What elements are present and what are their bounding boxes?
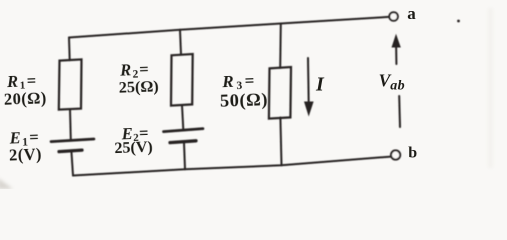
svg-text:25(V): 25(V) — [114, 139, 153, 157]
svg-text:2(V): 2(V) — [9, 144, 42, 164]
paper smudge bottom-left — [0, 178, 13, 189]
wire R2 to E2 — [182, 105, 183, 130]
wire R2 branch top — [180, 30, 181, 55]
svg-text:a: a — [407, 4, 416, 23]
label E2 value — [114, 123, 153, 157]
voltage arrow Vab head — [392, 34, 401, 48]
wire E2 to bottom rail — [184, 142, 185, 169]
wire R3 to bottom rail — [280, 118, 281, 166]
wire bottom rail — [73, 157, 391, 176]
resistor R2 — [171, 54, 193, 106]
resistor R3 — [269, 67, 291, 119]
label E1 value — [8, 127, 42, 164]
terminal a — [389, 12, 398, 21]
arrow I head — [304, 102, 314, 117]
voltage arrow Vab shaft — [395, 43, 397, 64]
arrow I shaft — [307, 58, 310, 103]
wire top rail — [69, 17, 389, 38]
terminal b — [391, 150, 400, 159]
label R2 value — [118, 59, 159, 96]
resistor R1 — [59, 59, 82, 109]
wire R1 branch top — [68, 38, 71, 61]
stray dot — [457, 20, 460, 23]
svg-text:20(Ω): 20(Ω) — [4, 88, 47, 108]
svg-text:b: b — [408, 145, 417, 162]
label R3 value — [219, 71, 268, 112]
battery E1 — [51, 139, 94, 152]
svg-text:50(Ω): 50(Ω) — [220, 89, 269, 112]
svg-text:I: I — [315, 74, 325, 96]
wire E1 to bottom rail — [71, 151, 73, 176]
label R1 value — [3, 71, 47, 109]
paper streak right edge — [488, 8, 493, 168]
wire R3 branch top — [279, 24, 282, 68]
svg-text:25(Ω): 25(Ω) — [118, 77, 159, 96]
wire R1 to E1 — [69, 109, 72, 140]
wire Vab lower segment — [398, 96, 401, 127]
battery E2 — [164, 129, 204, 143]
